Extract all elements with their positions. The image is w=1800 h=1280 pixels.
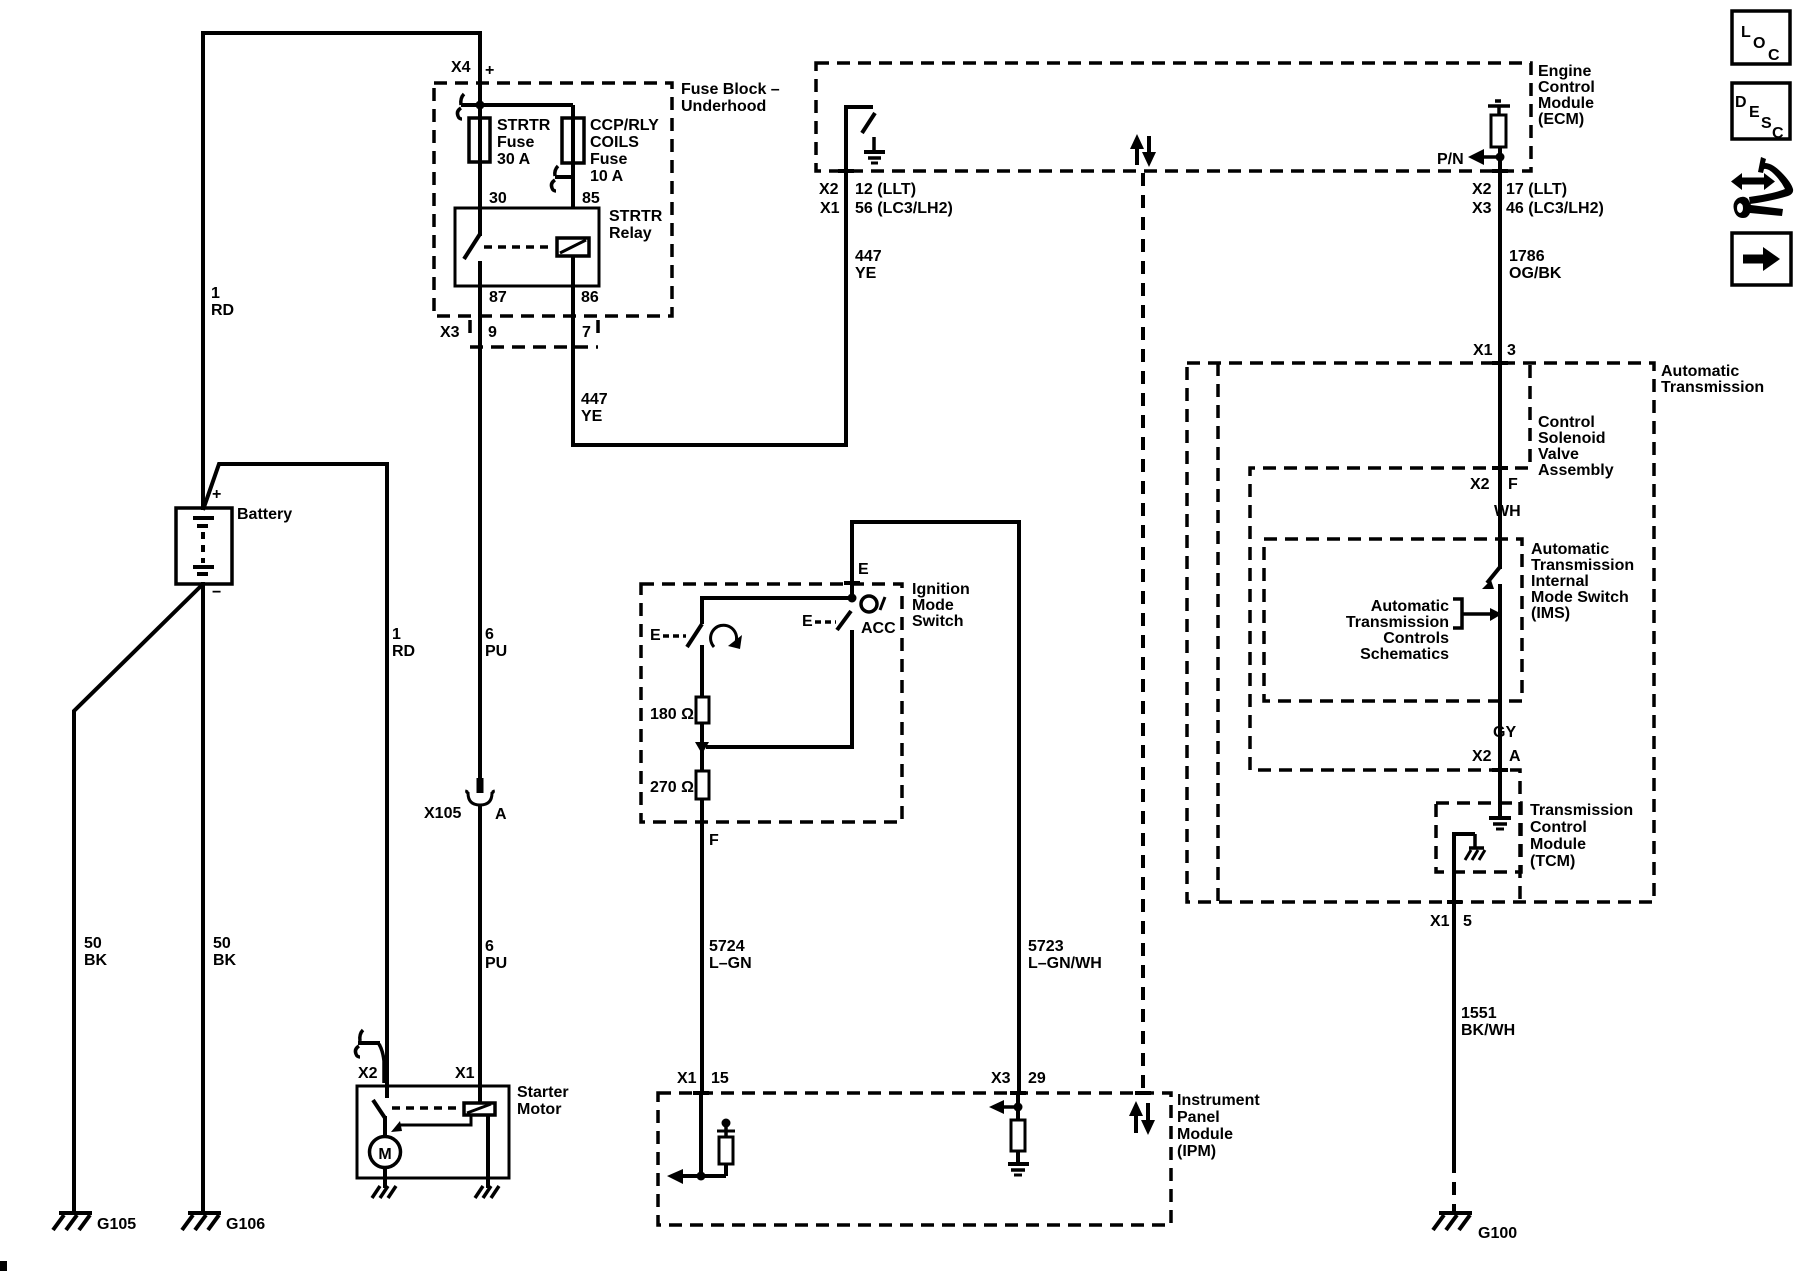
svg-text:5723: 5723 (1028, 938, 1064, 955)
svg-text:M: M (378, 1146, 391, 1163)
inner dashed boundary line (1216, 363, 1220, 902)
wire 50 BK battery negative to G106 (201, 582, 205, 1213)
svg-text:E: E (1749, 104, 1760, 121)
node junction E (848, 594, 857, 603)
ground G100 (1433, 1213, 1472, 1230)
svg-text:46 (LC3/LH2): 46 (LC3/LH2) (1506, 200, 1604, 217)
ground G105 (53, 1213, 92, 1230)
connector tick X2-12 (838, 169, 854, 173)
svg-text:(IPM): (IPM) (1177, 1143, 1216, 1160)
P/N sense arrow (1468, 149, 1500, 165)
automatic transmission outer dashed box (1187, 363, 1654, 902)
coil engage arm (391, 1115, 471, 1132)
wire relay 87 down through X3-9 (478, 261, 482, 780)
svg-text:50: 50 (84, 935, 102, 952)
ignition mode switch dashed box (641, 584, 902, 822)
svg-text:X1: X1 (1473, 342, 1493, 359)
svg-text:Switch: Switch (912, 613, 964, 630)
svg-text:C: C (1772, 125, 1784, 142)
svg-text:O: O (1753, 35, 1765, 52)
svg-text:Mode: Mode (912, 597, 954, 614)
svg-text:Battery: Battery (237, 506, 292, 523)
wire resistor to pin (1498, 147, 1502, 171)
svg-text:−: − (212, 584, 221, 601)
svg-text:Starter: Starter (517, 1084, 569, 1101)
svg-text:X105: X105 (424, 805, 461, 822)
resistor 180 ohm (696, 697, 709, 723)
reference arrow to wire (1462, 608, 1502, 621)
wire relay 86 down through X3-7 to 447 YE (573, 171, 846, 445)
wire starter X1 into coil (478, 1087, 482, 1103)
svg-text:L–GN: L–GN (709, 955, 752, 972)
IPM serial data arrows (1129, 1101, 1155, 1135)
svg-text:RD: RD (211, 302, 234, 319)
wire F output 5724 L-GN to IPM X1-15 (700, 799, 704, 1093)
svg-text:X3: X3 (991, 1070, 1011, 1087)
svg-text:+: + (212, 486, 221, 503)
svg-text:50: 50 (213, 935, 231, 952)
svg-text:Control: Control (1538, 79, 1595, 96)
svg-text:Fuse Block –: Fuse Block – (681, 81, 780, 98)
in-line terminal hook below CCP fuse (555, 166, 558, 176)
svg-text:85: 85 (582, 190, 600, 207)
wire 1 RD battery positive to starter X2 (203, 464, 387, 1088)
connector X3 row (470, 320, 598, 347)
svg-text:Assembly: Assembly (1538, 462, 1614, 479)
svg-text:Transmission: Transmission (1346, 614, 1449, 631)
IPM pull-down resistor (X3-29) (1011, 1120, 1025, 1151)
svg-text:3: 3 (1507, 342, 1516, 359)
resistor 270 ohm (696, 771, 709, 799)
svg-text:86: 86 (581, 289, 599, 306)
svg-text:F: F (709, 832, 719, 849)
ECM dashed box (816, 63, 1531, 171)
svg-text:C: C (1768, 47, 1780, 64)
svg-text:G105: G105 (97, 1216, 136, 1233)
IPM X3-29 input circuit (989, 1093, 1023, 1121)
svg-text:Control: Control (1530, 819, 1587, 836)
svg-text:BK: BK (84, 952, 108, 969)
svg-text:PU: PU (485, 955, 507, 972)
in-line terminal hook at fuse block feed (461, 94, 464, 105)
svg-text:10 A: 10 A (590, 168, 624, 185)
dashes E to ACC blade (815, 620, 836, 624)
icon pointer with double arrow (1731, 157, 1793, 218)
svg-text:17 (LLT): 17 (LLT) (1506, 181, 1567, 198)
svg-text:Fuse: Fuse (497, 134, 534, 151)
svg-text:(IMS): (IMS) (1531, 605, 1570, 622)
svg-text:Internal: Internal (1531, 573, 1589, 590)
svg-text:Solenoid: Solenoid (1538, 430, 1606, 447)
svg-text:Module: Module (1538, 95, 1594, 112)
svg-text:Panel: Panel (1177, 1109, 1220, 1126)
svg-text:30: 30 (489, 190, 507, 207)
switch blade (ACC contact) (837, 611, 851, 630)
svg-text:Schematics: Schematics (1360, 646, 1449, 663)
icon forward arrow box (1732, 233, 1791, 285)
svg-text:E: E (650, 627, 661, 644)
svg-text:X1: X1 (455, 1065, 475, 1082)
relay STRTR box (455, 208, 599, 286)
svg-text:Fuse: Fuse (590, 151, 627, 168)
IMS switch blade (1482, 567, 1500, 589)
IPM signal ground (1008, 1164, 1029, 1175)
connector tick X2-F (1492, 466, 1508, 470)
node junction P/N (1496, 153, 1505, 162)
fuse STRTR 30A (469, 118, 490, 162)
svg-text:Transmission: Transmission (1661, 379, 1764, 396)
svg-text:STRTR: STRTR (609, 208, 663, 225)
reference bracket (1453, 599, 1462, 628)
svg-text:X2: X2 (1472, 748, 1492, 765)
connector tick X1-3 (1492, 361, 1508, 365)
svg-text:CCP/RLY: CCP/RLY (590, 117, 659, 134)
svg-text:Control: Control (1538, 414, 1595, 431)
arrow into junction F (695, 742, 709, 754)
svg-text:7: 7 (582, 324, 591, 341)
fuse block underhood dashed box (434, 83, 672, 316)
svg-text:OG/BK: OG/BK (1509, 265, 1562, 282)
svg-text:X2: X2 (358, 1065, 378, 1082)
ECM internal pull-up resistor (1491, 115, 1506, 147)
svg-text:30 A: 30 A (497, 151, 531, 168)
in-line terminal hook above starter X2 (355, 1030, 384, 1083)
wire 180 ohm to junction (700, 723, 704, 772)
svg-text:Instrument: Instrument (1177, 1092, 1260, 1109)
svg-text:S: S (1761, 115, 1772, 132)
TCM chassis ground circuit (1454, 834, 1485, 1160)
svg-text:1551: 1551 (1461, 1005, 1497, 1022)
svg-text:Motor: Motor (517, 1101, 561, 1118)
connector tick serial data into IPM (1135, 1091, 1151, 1095)
svg-text:12 (LLT): 12 (LLT) (855, 181, 916, 198)
starter motor box (357, 1086, 509, 1178)
TCM dashed box (1436, 803, 1521, 872)
svg-text:COILS: COILS (590, 134, 639, 151)
svg-text:Module: Module (1177, 1126, 1233, 1143)
relay coil (557, 238, 589, 256)
svg-text:L: L (1741, 24, 1751, 41)
svg-text:X2: X2 (1472, 181, 1492, 198)
svg-text:A: A (495, 806, 507, 823)
starter linkage dashed (392, 1106, 460, 1110)
stray mark bottom left (0, 1261, 7, 1271)
svg-text:5: 5 (1463, 913, 1472, 930)
ignition switch common wire (702, 598, 852, 624)
svg-text:Valve: Valve (1538, 446, 1579, 463)
wire top feed from battery to fuse block (203, 33, 480, 120)
svg-text:X1: X1 (677, 1070, 697, 1087)
svg-text:F: F (1508, 476, 1518, 493)
IMS dashed box (1264, 539, 1522, 701)
svg-text:D: D (1735, 94, 1747, 111)
svg-text:Automatic: Automatic (1661, 363, 1739, 380)
svg-text:447: 447 (855, 248, 882, 265)
wire 50 BK battery negative to G105 (74, 584, 203, 1213)
connector tick X2-17 (1492, 169, 1508, 173)
svg-text:Engine: Engine (1538, 63, 1591, 80)
svg-text:Automatic: Automatic (1371, 598, 1449, 615)
svg-text:E: E (802, 613, 813, 630)
svg-text:YE: YE (581, 408, 603, 425)
svg-text:G100: G100 (1478, 1225, 1517, 1242)
svg-text:Controls: Controls (1383, 630, 1449, 647)
svg-text:ACC: ACC (861, 620, 896, 637)
svg-text:GY: GY (1493, 724, 1516, 741)
svg-text:1: 1 (211, 285, 220, 302)
wire switch output to 180 ohm (700, 645, 704, 698)
wire IMS to TCM ground (1498, 584, 1502, 818)
svg-text:YE: YE (855, 265, 877, 282)
battery B+ (176, 508, 232, 584)
wire 1786 OG/BK ECM to transmission (1498, 171, 1502, 569)
wire ACC to resistor junction (706, 630, 852, 747)
wire 6 PU X105 to starter X1 (478, 805, 482, 1088)
svg-text:E: E (858, 561, 869, 578)
svg-text:(TCM): (TCM) (1530, 853, 1575, 870)
node junction at fuse feed (476, 101, 485, 110)
svg-text:P/N: P/N (1437, 151, 1464, 168)
svg-text:RD: RD (392, 643, 415, 660)
ECM serial data arrows (1130, 134, 1156, 167)
ECM internal driver switch to ground (846, 107, 875, 171)
connector X105 (467, 778, 494, 805)
svg-text:BK: BK (213, 952, 237, 969)
svg-text:180 Ω: 180 Ω (650, 706, 694, 723)
relay linkage dashed (484, 245, 553, 249)
svg-text:X3: X3 (440, 324, 460, 341)
dashes E to blade (663, 634, 686, 638)
svg-text:29: 29 (1028, 1070, 1046, 1087)
ACC slash (880, 597, 885, 610)
TCM signal ground (1489, 818, 1511, 829)
wire coil to ground (486, 1115, 490, 1188)
svg-text:9: 9 (488, 324, 497, 341)
ACC position circle (861, 596, 877, 612)
wire motor to ground (383, 1167, 387, 1188)
svg-text:(ECM): (ECM) (1538, 111, 1584, 128)
svg-text:6: 6 (485, 938, 494, 955)
wire battery feed vertical (201, 31, 205, 510)
svg-text:Transmission: Transmission (1531, 557, 1634, 574)
svg-text:PU: PU (485, 643, 507, 660)
connector tick E crossing (844, 581, 860, 585)
svg-text:L–GN/WH: L–GN/WH (1028, 955, 1102, 972)
svg-text:5724: 5724 (709, 938, 745, 955)
fuse CCP/RLY COILS 10A (562, 118, 584, 163)
rotation arrow (711, 625, 742, 649)
svg-text:X1: X1 (820, 200, 840, 217)
connector tick X1-15 (693, 1091, 709, 1095)
chassis ground (solenoid) (475, 1186, 499, 1198)
ECM internal signal ground (864, 137, 885, 163)
wire resistor to ground (1016, 1151, 1020, 1164)
svg-text:56 (LC3/LH2): 56 (LC3/LH2) (855, 200, 953, 217)
ground G106 (182, 1213, 221, 1230)
wire E feed solid box to IPM X3-29 (852, 522, 1019, 1093)
svg-text:Underhood: Underhood (681, 98, 766, 115)
wire 1551 dashed tail to G100 (1452, 1160, 1456, 1213)
svg-text:X4: X4 (451, 59, 471, 76)
relay switch blade pin30-87 (478, 208, 482, 236)
svg-text:87: 87 (489, 289, 507, 306)
svg-text:STRTR: STRTR (497, 117, 551, 134)
svg-text:+: + (485, 62, 494, 79)
svg-text:X3: X3 (1472, 200, 1492, 217)
wire junction to CCP fuse (461, 103, 573, 107)
switch blade (run contact) (687, 624, 702, 647)
svg-text:G106: G106 (226, 1216, 265, 1233)
icon LOC box (1732, 11, 1790, 64)
instrument panel module dashed box (658, 1093, 1171, 1225)
svg-text:Module: Module (1530, 836, 1586, 853)
svg-text:6: 6 (485, 626, 494, 643)
connector tick X1-5 (1447, 900, 1462, 904)
connector tick X3-29 (1010, 1091, 1026, 1095)
svg-text:X2: X2 (1470, 476, 1490, 493)
svg-text:270 Ω: 270 Ω (650, 779, 694, 796)
icon DESC box (1732, 83, 1790, 142)
starter solenoid coil (464, 1103, 495, 1115)
svg-text:X2: X2 (819, 181, 839, 198)
svg-text:15: 15 (711, 1070, 729, 1087)
pull-up supply stub with node (717, 1119, 735, 1138)
svg-text:A: A (1509, 748, 1521, 765)
svg-text:1786: 1786 (1509, 248, 1545, 265)
svg-text:447: 447 (581, 391, 608, 408)
control solenoid valve assembly dashed boundary (1250, 365, 1530, 900)
starter solenoid switch blade (373, 1087, 387, 1138)
IPM pull-up resistor (X1-15) (719, 1137, 733, 1164)
chassis ground (motor) (372, 1186, 396, 1198)
starter motor M circle (370, 1137, 401, 1168)
ECM internal pull-up supply T (1488, 101, 1510, 116)
svg-text:Relay: Relay (609, 225, 652, 242)
svg-text:WH: WH (1494, 503, 1521, 520)
connector tick X2-A (1492, 768, 1508, 772)
svg-text:Ignition: Ignition (912, 581, 970, 598)
svg-text:1: 1 (392, 626, 401, 643)
svg-text:Automatic: Automatic (1531, 541, 1609, 558)
svg-text:X1: X1 (1430, 913, 1450, 930)
svg-text:BK/WH: BK/WH (1461, 1022, 1515, 1039)
svg-text:Mode Switch: Mode Switch (1531, 589, 1629, 606)
serial data dashed wire ECM to IPM (1141, 173, 1145, 1093)
IPM X1-15 input circuit (667, 1093, 726, 1184)
svg-text:Transmission: Transmission (1530, 802, 1633, 819)
